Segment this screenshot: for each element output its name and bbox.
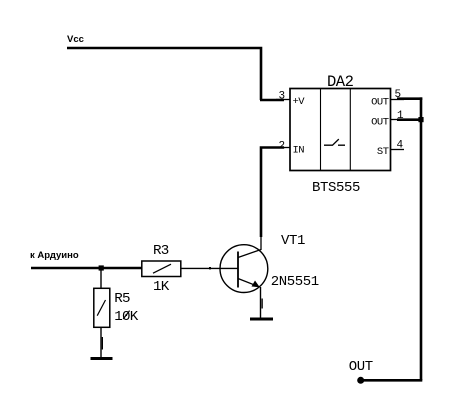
wire pin 1 to output bus [397,118,421,121]
svg-text:IN: IN [293,145,305,157]
svg-text:1K: 1K [153,279,170,295]
svg-text:10K: 10K [114,309,138,325]
svg-text:BTS555: BTS555 [312,180,360,196]
svg-text:3: 3 [279,90,286,102]
node dot OUT [357,377,364,384]
svg-text:4: 4 [397,140,404,152]
junction dot pins 1-5 bus [418,117,423,122]
wire pin 2 to transistor collector [261,146,284,237]
pin 5 stub [391,99,405,101]
wire collector thin segment [260,236,262,250]
junction dot base/R5 [99,265,104,270]
svg-text:OUT: OUT [371,116,389,128]
pin 1 stub [391,119,405,121]
svg-text:OUT: OUT [371,96,389,108]
wire junction to R5 [100,268,102,288]
svg-text:2: 2 [279,140,286,152]
transistor collector diagonal [238,250,261,258]
doubled wire segment below emitter [262,299,263,309]
switch symbol inside IC [324,139,345,145]
pin 4 stub [391,149,405,151]
ground under R5 [91,357,113,360]
transistor VT1 circle [220,245,268,293]
wire R5 to ground [100,327,102,357]
svg-text:VT1: VT1 [281,233,305,249]
snap tick on base wire [209,267,211,269]
wire base input [31,267,142,270]
pin 2 stub [276,147,290,149]
IC internal divider right [349,89,351,171]
wire R3 to base [181,267,238,269]
doubled wire segment below R5 [102,337,103,350]
svg-text:R5: R5 [114,291,130,307]
wire output bus vertical [420,97,423,380]
transistor base bar [237,252,239,288]
svg-text:OUT: OUT [349,359,373,375]
slash on zero of 10K [123,311,129,319]
transistor emitter diagonal [238,279,260,288]
wire OUT to bus [361,379,423,382]
resistor R3 [142,261,181,277]
svg-text:+V: +V [293,96,306,108]
svg-text:Vcc: Vcc [67,34,84,45]
svg-text:R3: R3 [153,243,169,259]
pin 3 stub [276,99,290,101]
ground under emitter [250,318,273,321]
wire emitter to ground [260,287,262,318]
wire Vcc to pin 3 [67,47,284,100]
svg-text:ST: ST [377,146,389,158]
emitter arrow head [252,281,260,288]
svg-text:к Ардуино: к Ардуино [30,250,79,261]
svg-text:2N5551: 2N5551 [271,274,319,290]
svg-text:DA2: DA2 [327,73,354,91]
wire pin 5 to output bus [397,97,422,100]
IC U1 body DA2 [290,89,391,171]
resistor R5 [94,288,110,327]
IC internal divider left [320,89,322,171]
